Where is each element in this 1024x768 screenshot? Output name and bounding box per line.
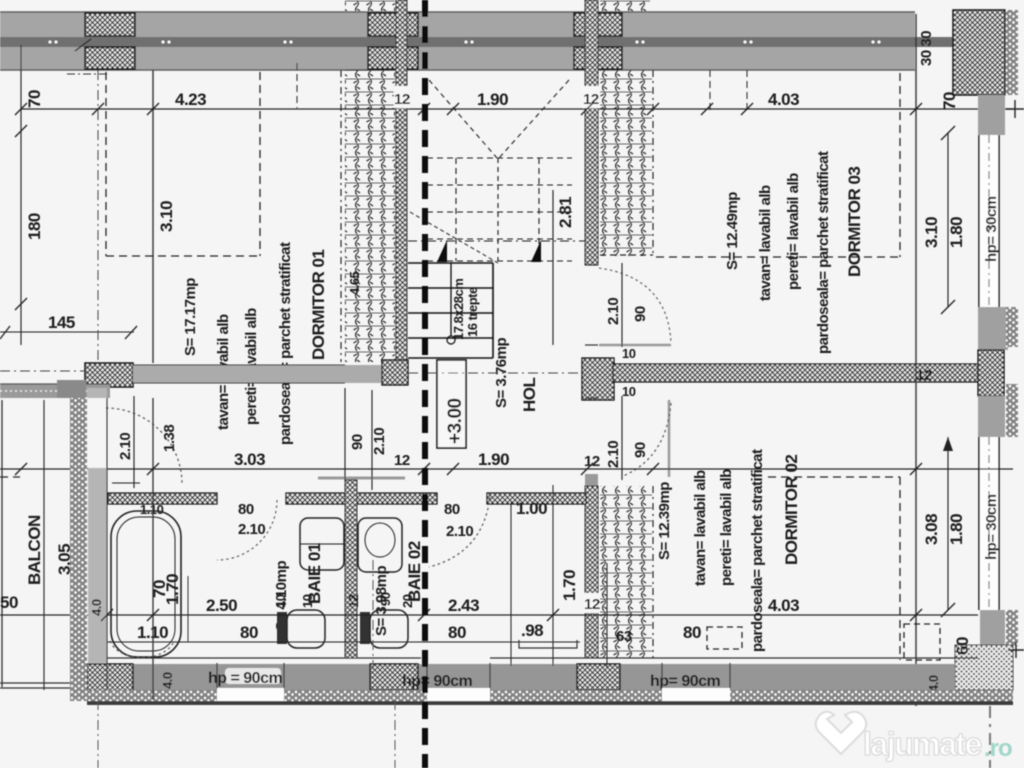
bottom wall gray band — [87, 664, 955, 690]
sink baie01 — [300, 518, 344, 570]
svg-text:12: 12 — [916, 367, 932, 384]
divider wall strip — [345, 480, 357, 658]
gray jamb above window1 — [978, 95, 1005, 135]
gray band left part — [133, 365, 345, 383]
tick marks left dims — [0, 39, 137, 339]
gray block below window1 — [978, 307, 1008, 350]
svg-text:.ro: .ro — [984, 735, 1012, 762]
dim vertical line x553 lower — [552, 485, 554, 666]
svg-text:4.0: 4.0 — [926, 675, 941, 692]
sink baie02 — [358, 518, 402, 572]
svg-text:30 30: 30 30 — [918, 31, 935, 66]
svg-text:tavan= lavabil alb: tavan= lavabil alb — [757, 185, 774, 301]
window1 frame — [979, 135, 1000, 307]
dashed room boundary dormitor 03 — [899, 73, 901, 257]
column C1 top band — [85, 13, 135, 69]
svg-text:60: 60 — [953, 637, 972, 655]
wall band light gray — [0, 12, 915, 70]
hatched band dormitor03/02 separator — [613, 364, 978, 382]
svg-text:17.8x28cm: 17.8x28cm — [451, 279, 466, 340]
svg-text:2.10: 2.10 — [371, 428, 388, 455]
axis dashed x297 short — [296, 63, 298, 108]
wc baie01 tank — [277, 612, 287, 644]
hatch block at stair wall base — [382, 360, 408, 385]
svg-text:pardoseala= parchet stratifica: pardoseala= parchet stratificat — [815, 151, 832, 354]
svg-text:12: 12 — [346, 594, 361, 608]
interior line above bottom wall left — [107, 657, 421, 659]
dim vertical line x509 — [510, 502, 512, 666]
stair right wall insulation squiggles — [600, 70, 652, 256]
axis dash-dot x373 — [372, 560, 374, 670]
svg-text:1.80: 1.80 — [947, 514, 966, 545]
svg-text:2.43: 2.43 — [448, 596, 479, 615]
svg-text:90: 90 — [349, 434, 366, 450]
svg-text:70: 70 — [940, 92, 959, 110]
svg-text:12: 12 — [584, 596, 600, 613]
svg-text:DORMITOR 03: DORMITOR 03 — [845, 167, 864, 277]
svg-text:2.10: 2.10 — [605, 298, 622, 325]
svg-text:S= 12.39mp: S= 12.39mp — [656, 482, 673, 560]
upper flight dashed edges — [455, 158, 457, 261]
door baie01 arc — [217, 500, 277, 560]
svg-text:4.03: 4.03 — [768, 596, 799, 615]
column block left end — [85, 363, 133, 387]
svg-text:2.10: 2.10 — [446, 523, 473, 540]
svg-text:hp= 30cm: hp= 30cm — [983, 196, 1000, 262]
svg-text:S= 17.17mp: S= 17.17mp — [182, 278, 199, 356]
balcony door arc — [106, 408, 182, 484]
door opening jambs — [585, 397, 598, 399]
svg-text:hp= 90cm: hp= 90cm — [402, 673, 473, 690]
lower flight solid treads — [408, 263, 493, 358]
small gray block on wall — [585, 474, 598, 486]
svg-text:BALCON: BALCON — [25, 515, 44, 585]
svg-text:90: 90 — [632, 442, 649, 458]
dashed door rect right — [904, 624, 940, 660]
tub door arc bottom — [110, 641, 174, 658]
column C2 top band — [368, 13, 418, 69]
svg-text:DORMITOR 02: DORMITOR 02 — [782, 455, 801, 565]
svg-text:4.03: 4.03 — [768, 90, 799, 109]
svg-text:3.10: 3.10 — [157, 201, 176, 232]
stair left wall insulation squiggles — [345, 70, 395, 362]
wall band piece 3 — [487, 493, 586, 504]
svg-text:50: 50 — [0, 593, 18, 612]
wall band piece 1 — [108, 493, 217, 504]
hatch block mid right wall — [978, 350, 1004, 396]
window B1 label patch — [225, 668, 281, 684]
upper flight dashed treads — [427, 157, 572, 159]
insulation dashed border left — [340, 70, 342, 362]
svg-text:80: 80 — [444, 501, 460, 518]
gray block below window2 — [980, 610, 1005, 645]
bathtub — [111, 511, 181, 657]
stair right wall strip upper — [585, 0, 598, 265]
dim 2.01 vertical — [552, 190, 554, 345]
svg-text:10: 10 — [622, 346, 636, 361]
door leaf gray — [668, 400, 671, 477]
door dash rect dormitor02 bottom — [707, 627, 742, 649]
axis dash-dot y373 through HOL — [408, 372, 582, 374]
svg-text:1.80: 1.80 — [947, 217, 966, 248]
svg-text:2.10: 2.10 — [117, 433, 134, 460]
insulation dotted strip bottom — [70, 690, 1013, 701]
svg-text:2.10: 2.10 — [238, 521, 265, 538]
svg-text:DORMITOR 01: DORMITOR 01 — [309, 250, 328, 360]
axis dash-dot y371 left stub — [0, 370, 85, 372]
door swing arc dotted — [623, 403, 671, 476]
column C3 top band — [574, 13, 622, 69]
svg-text:80: 80 — [683, 623, 701, 642]
dim 1.80 window2 — [947, 437, 949, 610]
svg-text:.98: .98 — [521, 621, 543, 640]
svg-text:70: 70 — [25, 90, 44, 108]
svg-text:lajumate: lajumate — [863, 726, 982, 762]
svg-text:BAIE 02: BAIE 02 — [405, 541, 424, 602]
dimension line top — [21, 108, 1013, 110]
left exterior wall dark strip with dots — [70, 395, 87, 700]
wc baie02 tank — [360, 612, 370, 644]
+3.00 level box — [437, 360, 466, 448]
svg-text:10: 10 — [300, 594, 315, 608]
hatch block bottom mid-left — [370, 664, 418, 690]
interior line above bottom wall right — [490, 657, 978, 659]
svg-text:1.70: 1.70 — [560, 570, 579, 601]
window B1 white strip — [217, 688, 284, 701]
door dim line — [621, 263, 623, 347]
left wall band stub y384 — [0, 384, 110, 398]
axis dashed x747 short — [746, 70, 748, 112]
section break line through stair — [408, 240, 585, 242]
svg-text:4.23: 4.23 — [175, 90, 206, 109]
squiggle insulation dormitor02 side — [600, 486, 652, 658]
dim line x153 lower — [152, 398, 154, 700]
svg-text:2.50: 2.50 — [206, 596, 237, 615]
vertical line x188 — [187, 576, 189, 642]
svg-text:4.65: 4.65 — [347, 271, 362, 295]
gray jamb above window2 — [978, 396, 1005, 437]
dashed box left room — [105, 72, 107, 256]
wall band piece 2 — [286, 493, 437, 504]
dimension tick slashes rows — [15, 103, 922, 621]
window jamb lines bottom wall — [217, 663, 730, 701]
stair direction V dashes — [429, 80, 497, 158]
svg-text:S= 12.49mp: S= 12.49mp — [724, 192, 741, 270]
svg-text:80: 80 — [240, 623, 258, 642]
dashed border squiggle d02 — [652, 486, 654, 658]
dim vertical line x607 (1.70) — [606, 563, 608, 668]
axis dash-dot x98 upper — [97, 70, 99, 363]
svg-text:HOL: HOL — [520, 378, 539, 413]
long inner vertical line — [915, 14, 917, 706]
svg-text:3.10: 3.10 — [922, 217, 941, 248]
svg-text:hp= 90cm: hp= 90cm — [650, 673, 721, 690]
break triangles — [437, 240, 447, 262]
left wall light strip — [88, 468, 107, 663]
junction block right stair wall — [582, 358, 614, 400]
svg-text:4.0: 4.0 — [89, 599, 104, 616]
svg-text:180: 180 — [25, 213, 44, 240]
section cut thick dashed line — [422, 0, 428, 768]
hatch block bottom left corner — [87, 664, 133, 698]
threshold shelf — [519, 640, 577, 648]
svg-text:90: 90 — [378, 592, 393, 606]
dim 1.80 window1 — [947, 133, 949, 307]
watermark logo heart W — [816, 712, 867, 754]
svg-text:80: 80 — [448, 623, 466, 642]
insulation dashed border right — [652, 70, 654, 256]
svg-text:12: 12 — [394, 452, 410, 469]
dash-dot corner top-left — [67, 73, 108, 75]
left vertical dim line — [20, 45, 22, 345]
window B3 white below — [662, 688, 730, 701]
svg-text:63: 63 — [616, 628, 632, 645]
svg-text:12: 12 — [394, 91, 410, 108]
svg-text:pereti= lavabil alb: pereti= lavabil alb — [785, 173, 802, 290]
svg-text:pardoseala= parchet stratifica: pardoseala= parchet stratificat — [749, 449, 766, 652]
gray door head line — [318, 477, 405, 480]
stair walk line with start circle — [450, 263, 452, 336]
label 12 on left stair wall — [394, 86, 409, 108]
svg-text:1.90: 1.90 — [478, 450, 509, 469]
axis dash-dot x990 below — [989, 706, 991, 768]
svg-text:1.00: 1.00 — [516, 499, 547, 518]
dimension line y615 — [0, 614, 978, 616]
svg-text:pereti= lavabil alb: pereti= lavabil alb — [718, 469, 735, 586]
svg-text:3.03: 3.03 — [234, 450, 265, 469]
svg-text:16 trepte: 16 trepte — [465, 287, 480, 337]
wall band dark core stripe — [0, 37, 953, 47]
dim line 145 — [0, 331, 134, 333]
svg-text:12: 12 — [584, 453, 600, 470]
balcony inner edge x107 — [106, 398, 108, 690]
door leaf gray — [599, 344, 671, 347]
corner column bottom-right fine dots — [955, 645, 1013, 690]
svg-text:tavan= lavabil alb: tavan= lavabil alb — [692, 470, 709, 586]
label 12 gap on lower wall strip — [584, 593, 599, 613]
svg-text:pardoseala= parchet stratifica: pardoseala= parchet stratificat — [277, 242, 294, 445]
balcony left edge line — [1, 400, 3, 687]
wc baie02 bowl — [370, 610, 408, 648]
balcony door jamb line — [133, 396, 135, 488]
door swing arc dotted — [599, 268, 671, 343]
label 12 on right stair wall — [583, 86, 599, 108]
white joint dots on core — [49, 41, 881, 44]
stair left wall strip — [396, 0, 407, 363]
bottom wall dark edge line — [87, 701, 1013, 705]
gray band under stair wall — [345, 365, 382, 383]
svg-text:1.90: 1.90 — [477, 90, 508, 109]
svg-text:2.10: 2.10 — [605, 441, 622, 468]
corner column top-right — [953, 10, 1018, 95]
left interior long vertical line — [152, 70, 154, 363]
dimension line mid — [0, 468, 1013, 470]
svg-text:1.10: 1.10 — [140, 502, 164, 517]
balcony bottom double lines — [0, 682, 70, 684]
wc baie01 bowl — [287, 610, 325, 648]
svg-text:1.38: 1.38 — [161, 425, 178, 452]
door opening jambs — [585, 264, 598, 266]
svg-text:90: 90 — [632, 306, 649, 322]
axis dashed x710 short — [709, 70, 711, 112]
dashed room boundary dormitor 02 — [899, 477, 901, 660]
svg-text:hp = 90cm: hp = 90cm — [208, 670, 282, 687]
door dim line — [621, 396, 623, 480]
window B2 white strip — [427, 688, 490, 701]
svg-text:145: 145 — [48, 313, 75, 332]
svg-text:3.08: 3.08 — [922, 514, 941, 545]
svg-text:10: 10 — [273, 594, 288, 608]
svg-text:20: 20 — [400, 594, 415, 608]
balcony inner vertical line — [43, 400, 45, 690]
wall strip lower right (hol/dormitor02) — [585, 486, 598, 658]
svg-text:4.0: 4.0 — [160, 672, 175, 689]
svg-text:2.81: 2.81 — [556, 197, 575, 228]
door hol dims 90/2.10 rotated — [344, 388, 346, 490]
axis cross right edge top — [1006, 100, 1024, 118]
window2 frame — [979, 437, 1000, 610]
svg-text:10: 10 — [622, 384, 636, 399]
door baie02 arc — [429, 497, 490, 567]
diagonal direction line lower — [410, 212, 498, 263]
svg-text:hp= 30cm: hp= 30cm — [983, 494, 1000, 560]
dimension line y642 — [100, 641, 580, 643]
axis dash-dot x98 lower — [97, 700, 99, 768]
hatch block bottom mid — [577, 664, 620, 690]
left wall top cap — [57, 380, 86, 398]
svg-text:80: 80 — [238, 501, 254, 518]
svg-text:+3.00: +3.00 — [445, 398, 466, 444]
axis cross right edge — [1008, 642, 1024, 658]
axis dash-dot x395 below — [394, 700, 396, 768]
